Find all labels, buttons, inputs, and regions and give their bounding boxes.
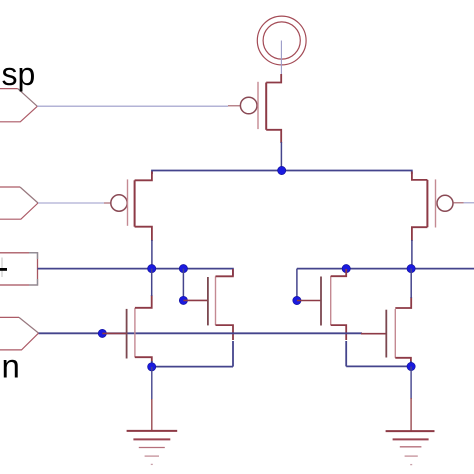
wire M5 drain down to node E xyxy=(411,240,413,269)
nmos M4 gate stub xyxy=(297,300,321,302)
svg-text:n: n xyxy=(2,348,20,385)
wire M4 source down to right tail xyxy=(345,341,347,366)
nmos M2 xyxy=(208,269,233,340)
junction node B (M1/M3 drains) xyxy=(148,265,156,273)
vdd supply symbol (double circle) xyxy=(257,16,306,65)
pmos M0 xyxy=(240,74,281,143)
top rail wire (vdd rail between M1 and M5) xyxy=(152,171,412,175)
wire M6 source to ground junction xyxy=(410,361,412,367)
nmos M3 gate stub xyxy=(102,332,126,334)
label sp xyxy=(2,56,36,92)
pmos M5 (right, mirrored) xyxy=(412,172,453,242)
left output rail wire (box to M2 drain) xyxy=(38,269,233,276)
junction left tail ground node xyxy=(148,363,156,371)
offpage connector box (left) xyxy=(0,253,38,285)
label n xyxy=(2,348,20,385)
junction node E (M5/M6 drains) xyxy=(407,265,415,273)
nmos M3 xyxy=(127,295,152,362)
pmos M1 xyxy=(111,172,152,242)
wire node C down to M2 gate xyxy=(182,269,184,301)
wire port to M1 gate xyxy=(38,202,104,204)
input port n (bottom-left) xyxy=(0,317,39,350)
wire M0 drain to rail node A xyxy=(280,142,282,171)
junction node C (M2 gate tap) xyxy=(179,265,187,273)
pmos M5 gate stub xyxy=(453,202,463,204)
wire M6 drain up to node E xyxy=(410,269,412,298)
junction right tail ground node xyxy=(407,362,415,370)
right tail wire to ground node xyxy=(346,365,411,367)
ground (left) xyxy=(127,431,178,465)
junction node A xyxy=(278,166,286,174)
wire M3 drain up to node B xyxy=(151,269,153,296)
nmos M6 gate stub xyxy=(361,333,386,335)
nmos M6 xyxy=(386,297,411,362)
wire M5 gate to right edge xyxy=(464,202,474,204)
junction M2 gate pin xyxy=(179,296,187,304)
wire left ground node down xyxy=(151,367,153,431)
nmos M2 gate stub xyxy=(183,299,208,301)
pmos M1 gate stub xyxy=(104,202,111,204)
input port sp (top-left) xyxy=(0,89,37,122)
wire M3 source to ground junction xyxy=(151,361,153,367)
wire vdd to M0 source xyxy=(280,41,282,77)
right output rail wire xyxy=(297,269,474,301)
wire port sp to M0 gate xyxy=(37,105,228,107)
nmos M4 xyxy=(321,269,346,340)
input port (middle-left) xyxy=(0,187,38,219)
ground (right) xyxy=(386,431,435,465)
left tail wire to ground node xyxy=(152,366,233,368)
junction node D (M4 drain) xyxy=(342,265,350,273)
wire port n across (gate wire) xyxy=(39,332,362,334)
wire right ground node down xyxy=(410,367,412,432)
junction M4 gate pin xyxy=(293,296,301,304)
wire M1 drain down to node B xyxy=(151,240,153,269)
pmos M0 gate stub xyxy=(228,105,240,107)
junction M3 gate pin xyxy=(98,329,106,337)
wire M2 source down to left tail xyxy=(232,341,234,367)
svg-text:sp: sp xyxy=(2,56,36,92)
